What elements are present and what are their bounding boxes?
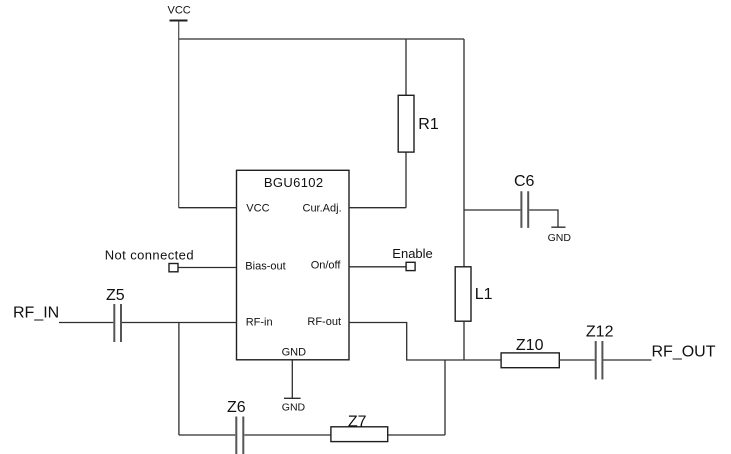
svg-text:GND: GND bbox=[282, 346, 307, 358]
svg-text:Z10: Z10 bbox=[516, 337, 544, 354]
svg-text:Z5: Z5 bbox=[106, 287, 125, 304]
svg-text:On/off: On/off bbox=[311, 260, 342, 272]
svg-text:VCC: VCC bbox=[246, 203, 269, 215]
svg-text:L1: L1 bbox=[475, 286, 493, 303]
svg-text:GND: GND bbox=[548, 232, 572, 244]
svg-text:C6: C6 bbox=[514, 173, 535, 190]
svg-text:Not connected: Not connected bbox=[105, 247, 194, 262]
svg-text:Bias-out: Bias-out bbox=[245, 260, 285, 272]
svg-text:RF-out: RF-out bbox=[307, 316, 341, 328]
svg-text:Cur.Adj.: Cur.Adj. bbox=[303, 203, 342, 215]
svg-text:Z7: Z7 bbox=[348, 413, 367, 430]
svg-text:R1: R1 bbox=[418, 116, 439, 133]
svg-text:RF_OUT: RF_OUT bbox=[652, 344, 716, 361]
svg-text:Z12: Z12 bbox=[586, 324, 614, 341]
svg-text:BGU6102: BGU6102 bbox=[264, 175, 324, 190]
svg-text:RF_IN: RF_IN bbox=[13, 305, 59, 322]
svg-text:GND: GND bbox=[282, 402, 306, 414]
svg-text:Enable: Enable bbox=[392, 246, 432, 261]
svg-text:Z6: Z6 bbox=[227, 399, 246, 416]
svg-text:VCC: VCC bbox=[168, 5, 191, 17]
svg-text:RF-in: RF-in bbox=[246, 316, 273, 328]
